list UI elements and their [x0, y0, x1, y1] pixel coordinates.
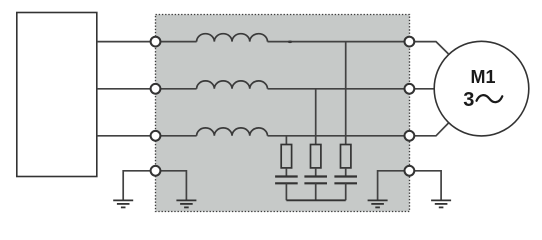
wire phase2 left: [97, 88, 197, 90]
resistor R2: [311, 145, 321, 168]
branch wire B1: [285, 136, 287, 145]
filter enclosure box: [156, 15, 410, 212]
wire right ground link (inner): [378, 171, 410, 200]
drive block: [17, 13, 97, 177]
capacitor C1: [275, 168, 298, 200]
ground (left outer): [113, 200, 133, 207]
terminal right 4 (earth): [405, 166, 415, 176]
svg-text:3: 3: [463, 89, 474, 111]
wire phase1 right: [268, 41, 410, 43]
resistor R3: [341, 145, 351, 168]
wire motor phase2: [409, 88, 435, 90]
inductor L2: [197, 81, 268, 89]
terminal left 1: [151, 37, 161, 47]
wire phase3 left: [97, 135, 197, 137]
ground (right inner): [368, 200, 388, 207]
wire motor phase3: [409, 123, 448, 136]
resistor R1: [281, 145, 291, 168]
wire phase3 right: [268, 135, 410, 137]
wire motor phase1: [409, 42, 448, 54]
wire phase1 left: [97, 41, 197, 43]
wire left ground link (outer): [123, 171, 155, 200]
inductor L1: [197, 34, 268, 42]
capacitor C3: [334, 168, 357, 200]
wire left ground link (inner): [156, 171, 187, 200]
capacitor C2: [304, 168, 327, 200]
branch wire B3: [345, 42, 347, 145]
wire phase2 right: [268, 88, 410, 90]
terminal right 1: [405, 37, 415, 47]
terminal right 2: [405, 84, 415, 94]
wire right ground link (outer): [409, 171, 441, 200]
terminal left 4 (earth): [151, 166, 161, 176]
terminal left 2: [151, 84, 161, 94]
inductor L3: [197, 128, 268, 136]
ground (left inner): [176, 200, 196, 207]
label phase tilde: [477, 95, 503, 102]
star-point bus wire: [286, 199, 345, 201]
junction dot wire1: [288, 41, 293, 44]
motor M1: [434, 41, 529, 136]
branch wire B2: [315, 89, 317, 145]
ground (right outer): [431, 200, 451, 207]
terminal left 3: [151, 131, 161, 141]
svg-text:M1: M1: [470, 67, 495, 87]
terminal right 3: [405, 131, 415, 141]
